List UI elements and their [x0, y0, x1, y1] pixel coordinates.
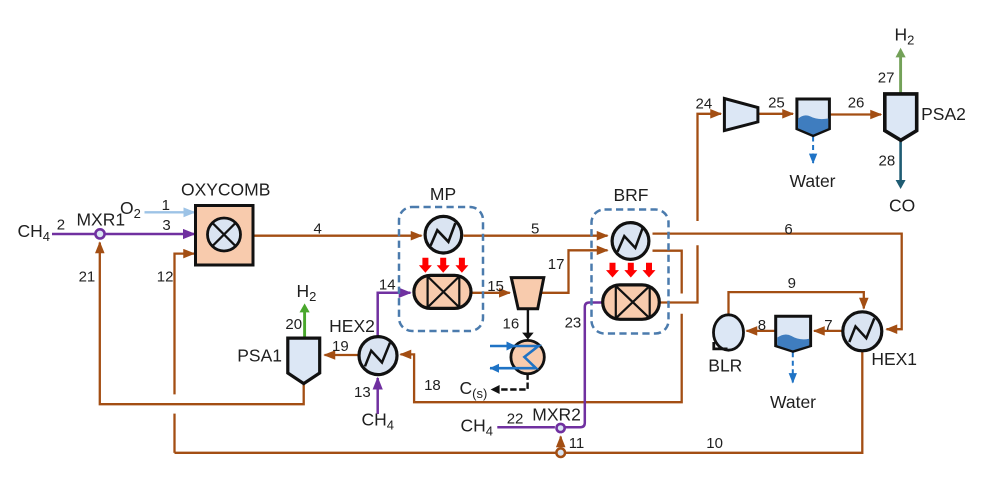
svg-text:HEX1: HEX1 [871, 349, 917, 369]
MP reactor [414, 275, 471, 308]
wire stream 22 CH4 to MXR2 [497, 426, 555, 429]
wire stream 8 [747, 330, 776, 332]
svg-text:CH4: CH4 [461, 416, 494, 439]
PSA2 vessel [885, 94, 917, 140]
svg-text:MXR1: MXR1 [76, 209, 125, 229]
expander trapezoid [511, 278, 544, 309]
wire water outlet top separator dashed [812, 137, 814, 164]
svg-text:H2: H2 [297, 281, 317, 304]
svg-text:3: 3 [162, 217, 170, 234]
MP dashed box [399, 207, 483, 331]
cooler circle [511, 340, 544, 373]
wire stream 11 junction to MXR2 [560, 437, 562, 448]
svg-text:20: 20 [285, 316, 302, 333]
svg-text:23: 23 [565, 315, 582, 332]
svg-text:11: 11 [569, 435, 585, 452]
svg-text:MP: MP [430, 184, 456, 204]
wire stream 20 PSA1 H2 [303, 312, 306, 339]
svg-text:BRF: BRF [614, 185, 649, 205]
svg-text:9: 9 [788, 275, 796, 292]
svg-text:PSA1: PSA1 [237, 346, 282, 366]
svg-text:7: 7 [824, 317, 832, 334]
wire stream 7 [814, 330, 843, 332]
svg-text:21: 21 [79, 268, 96, 285]
wire stream 25 [758, 113, 793, 115]
svg-text:12: 12 [157, 268, 174, 285]
BRF heat exchanger circle [612, 223, 649, 260]
svg-text:H2: H2 [895, 25, 915, 48]
svg-text:8: 8 [758, 317, 766, 334]
svg-text:16: 16 [503, 316, 520, 333]
svg-text:CO: CO [889, 196, 915, 216]
wire stream 24 lower (reactor out to riser) [659, 245, 697, 302]
wire water outlet bottom separator dashed [792, 352, 794, 382]
node junction stream 10/11 [556, 448, 565, 457]
svg-text:Water: Water [770, 392, 816, 412]
BLR blower [714, 315, 744, 350]
svg-text:18: 18 [424, 377, 441, 394]
svg-text:24: 24 [696, 96, 713, 113]
wire stream 5 [464, 235, 608, 237]
wire stream 26 [829, 113, 881, 115]
svg-text:19: 19 [332, 338, 349, 355]
svg-text:28: 28 [879, 152, 896, 169]
stream number labels [57, 70, 895, 453]
wire stream 12 vertical upper + arrow into OXYCOMB [175, 254, 195, 395]
compressor trapezoid [724, 99, 758, 131]
svg-text:22: 22 [507, 411, 524, 428]
wire stream 27 PSA2 H2 [899, 57, 902, 94]
HEX1 circle [843, 312, 882, 351]
wire stream 17 [542, 250, 608, 292]
wire stream 1 O2 feed [145, 211, 195, 213]
wire stream 4 [253, 235, 422, 237]
wire stream 16 trapezoid to cooler [527, 309, 529, 333]
svg-text:27: 27 [878, 70, 895, 87]
separator B (bottom) [776, 316, 811, 351]
MP red arrows [419, 258, 469, 273]
wire stream 14 HEX2 to MP reactor [378, 293, 411, 337]
svg-text:17: 17 [548, 256, 565, 273]
wire stream 12 vertical lower [173, 414, 175, 453]
wire stream 23 MXR2 to BRF reactor [564, 303, 603, 428]
svg-text:4: 4 [314, 220, 322, 237]
svg-text:MXR2: MXR2 [532, 405, 581, 425]
svg-text:CH4: CH4 [362, 409, 395, 432]
svg-text:BLR: BLR [708, 356, 742, 376]
wire stream 24 riser upper + arrow into compressor [698, 114, 722, 221]
wire stream 10 horizontal [175, 350, 863, 453]
svg-text:1: 1 [162, 197, 170, 214]
PSA1 vessel [288, 338, 320, 384]
svg-text:C(s): C(s) [460, 378, 488, 401]
svg-text:PSA2: PSA2 [921, 104, 966, 124]
wire stream 15 [471, 292, 510, 294]
wire stream 9 [729, 292, 864, 315]
svg-text:OXYCOMB: OXYCOMB [181, 179, 270, 199]
wire stream 28 PSA2 CO [899, 140, 902, 181]
svg-text:26: 26 [848, 95, 865, 112]
svg-text:14: 14 [379, 276, 396, 293]
wire stream 3 MXR1 to OXYCOMB [105, 233, 194, 236]
svg-text:10: 10 [706, 435, 723, 452]
node MXR1 [95, 229, 104, 238]
wire stream 19 [325, 354, 360, 356]
svg-text:O2: O2 [120, 198, 141, 221]
wire stream 2 CH4 to MXR1 [52, 233, 95, 236]
svg-text:15: 15 [487, 278, 504, 295]
wire stream 21 from PSA1 bottom to MXR1 [100, 243, 304, 405]
HEX2 circle [359, 337, 397, 375]
svg-text:13: 13 [354, 384, 371, 401]
node MXR2 [557, 424, 565, 432]
wire C(s) outlet dashed [500, 374, 528, 390]
BRF red arrows [606, 263, 656, 278]
svg-text:CH4: CH4 [18, 221, 51, 244]
svg-text:5: 5 [531, 221, 539, 238]
svg-text:25: 25 [768, 95, 785, 112]
OXYCOMB unit U-OXYCOMB [196, 206, 254, 266]
MP heat exchanger circle [425, 216, 462, 253]
svg-text:Water: Water [789, 171, 835, 191]
wire stream 13 CH4 to HEX2 [376, 378, 379, 414]
wire stream 18 [653, 251, 682, 294]
wire stream 6 [653, 234, 902, 330]
BRF reactor [603, 285, 660, 319]
svg-text:6: 6 [784, 221, 792, 238]
BRF dashed box [592, 210, 669, 334]
separator A (top) [797, 99, 830, 136]
svg-text:HEX2: HEX2 [329, 316, 375, 336]
svg-text:2: 2 [57, 216, 65, 233]
